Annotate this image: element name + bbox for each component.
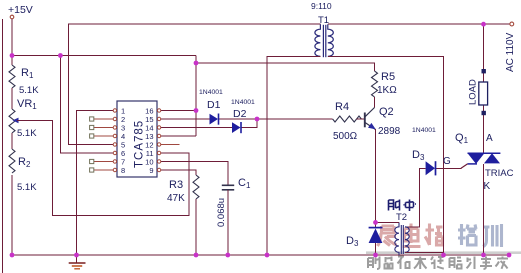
svg-text:47K: 47K [167,193,185,204]
pin 7 stub and pad [94,161,113,163]
char xian [431,257,444,270]
watermark big char yi [378,226,397,246]
wire C1 to ground rail [227,190,229,255]
wire VR1 wiper to pin11 [17,120,189,215]
svg-text:9: 9 [149,166,153,175]
potentiometer VR1 [9,98,37,139]
resistor R5 [372,71,398,97]
node AC rail tap [481,22,486,27]
wire right rail down [483,24,485,153]
wire D2 riser to node [242,119,258,128]
node +15V terminal [8,4,33,19]
wire Q2 emitter down [375,129,377,228]
wire top rail left (pin5 to T1 primary) [69,24,321,144]
node pin6 rail tap [58,53,63,58]
resistor R4 [333,101,362,142]
wire pin15 to D1 [161,118,210,120]
char tian [414,257,427,270]
ground symbol [69,255,86,269]
pin 4 stub and pad [94,135,113,137]
wire pin14 to D2 [161,127,233,129]
wire gate line [436,167,462,169]
wire R3 to ground rail [195,199,197,255]
wire T1 secondary bottom to rail right [328,56,444,255]
wire pin12 stub [161,144,180,146]
node +15V corner [10,53,15,58]
wire T2 secondary bottom [405,252,444,254]
wire R4 to Q2 base [356,118,364,120]
pin numbers left 1-8 [121,106,125,174]
pin 3 stub and pad [94,127,113,129]
node T2 primary tap [373,220,378,225]
ground rail bottom [12,254,509,256]
svg-text:9:110: 9:110 [311,1,332,11]
svg-text:1N4001: 1N4001 [199,89,223,96]
wire pin1 to ground [77,111,115,256]
pulse label (mai chong) [389,200,417,212]
wire +15V drop [11,19,13,65]
wire R5 to Q2 collector [374,97,376,108]
pin circles left [113,109,116,172]
svg-text:D2: D2 [233,108,247,120]
node pin16 tap [194,108,199,113]
svg-text:2898: 2898 [378,126,401,137]
diode D2 [231,99,255,133]
node D3 rail [373,253,378,258]
pin 8 stub and pad [94,169,113,171]
svg-text:TCA785: TCA785 [134,120,146,168]
svg-text:5.1K: 5.1K [17,128,37,139]
diode D1 [199,89,223,125]
capacitor C1 [216,177,251,227]
svg-text:500Ω: 500Ω [333,131,358,142]
wire pin6 to +15V rail [60,56,114,154]
node triac K rail [481,253,486,258]
svg-text:T2: T2 [396,212,407,223]
wire top rail right to AC terminal [328,23,510,25]
node D1 D2 join [255,117,260,122]
svg-text:G: G [443,156,451,167]
svg-text:A: A [486,133,493,144]
svg-text:5.1K: 5.1K [17,182,37,193]
node AC 110V terminal [505,22,516,72]
wire R2 to ground rail [11,175,13,255]
svg-text:1N4001: 1N4001 [231,99,255,106]
svg-text:AC 110V: AC 110V [505,32,516,72]
transistor Q2 [365,106,401,137]
node T1 primary rail [265,253,270,258]
svg-text:5.1K: 5.1K [19,85,39,96]
node R3 rail [194,253,199,258]
svg-text:1N4001: 1N4001 [412,127,436,134]
wire VR1 to R2 [11,133,13,149]
svg-text:LOAD: LOAD [468,79,479,105]
watermark gray text she pin he tian xian she ji zhuan jia [368,257,508,270]
wire T1 primary bottom to ground rail [267,56,320,255]
watermark big char di [403,224,421,247]
watermark big char tuo [425,224,443,246]
svg-text:0.068u: 0.068u [216,198,227,227]
pin numbers right 16-9 [145,106,153,174]
diode D3 gate [412,127,436,175]
transformer T2 [395,212,409,255]
resistor R1 [9,65,39,96]
wire T2 primary top to emitter line [376,221,400,223]
node C1 rail [225,253,230,258]
IC U1 TCA785 [117,101,157,177]
node rail right end [507,253,512,258]
pin circles right [157,109,160,172]
watermark big char xun [483,224,502,247]
node rail left corner [10,253,15,258]
svg-text:R4: R4 [335,101,349,113]
diode D3 freewheel [346,228,382,248]
wire pin16 to node [161,110,197,112]
svg-text:D1: D1 [207,99,221,111]
svg-text:1KΩ: 1KΩ [377,85,397,96]
svg-text:8: 8 [121,166,125,175]
wire vertical x196 (+15V to pins 16,13) [195,56,197,137]
wire D3 anode to T2 secondary [405,168,426,227]
wire +15V rail [12,55,196,57]
node T1 secondary rail [441,253,446,258]
watermark big char pei [458,224,477,245]
load LOAD [468,69,488,115]
wire pin13 [161,135,197,137]
wire D3 freewheel to rail [375,243,377,255]
svg-text:TRIAC: TRIAC [485,168,514,179]
svg-text:+15V: +15V [8,4,33,16]
node R5 feed tap [194,61,199,66]
pin 2 stub and pad [94,118,113,120]
char she2 [450,258,462,269]
svg-text:Q2: Q2 [379,106,394,118]
node ground junction [74,253,79,258]
char pin [385,257,393,269]
wire left border artifact [2,19,4,273]
triac Q1 [443,132,514,192]
char jia [496,257,509,269]
char zhuan [480,257,492,270]
char ji [467,257,475,270]
svg-text:K: K [484,181,491,192]
wire R1 to VR1 [11,88,13,109]
svg-text:R3: R3 [169,179,183,191]
char he [398,257,410,270]
watermark underline [366,251,521,254]
wire pin10 to C1 [161,162,228,186]
wire D1 to node to R4 [219,118,333,120]
wire pin9 to R3 [161,170,197,175]
transformer T1 [311,1,333,57]
char she [368,257,380,270]
svg-text:R5: R5 [381,71,395,83]
resistor R2 [9,149,37,193]
resistor R3 [167,175,199,204]
wire R5 feed from +15V node [196,63,375,71]
